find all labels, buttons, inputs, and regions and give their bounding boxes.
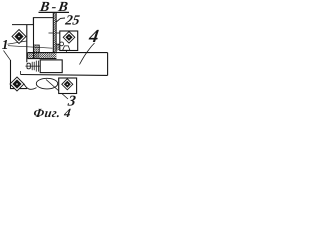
- flexible link tail: [24, 84, 37, 89]
- leader 1c: [4, 51, 11, 61]
- trapezoid tab with pin: [63, 46, 70, 53]
- section title B-B: [38, 0, 71, 15]
- svg-text:1: 1: [2, 37, 9, 52]
- leader 1b: [8, 46, 53, 49]
- clamp block under bolt: [40, 60, 62, 73]
- leader to 4: [80, 43, 95, 65]
- upper-right clamp box: [60, 31, 78, 51]
- long top edge of bar (merges with bracket top): [28, 52, 108, 54]
- bolt washer/plate lines: [31, 62, 33, 70]
- left vertical plate edge: [26, 25, 28, 63]
- flexible link loop (oval): [36, 78, 57, 89]
- diamond in upper-right box: [63, 32, 75, 44]
- leader 1a: [8, 41, 27, 44]
- hatched L-bracket: vertical band: [34, 45, 40, 59]
- leader to 3 through flexible link: [46, 80, 68, 100]
- leader to 25: [56, 18, 65, 22]
- lower-left bracket edges: [11, 60, 28, 89]
- plate-to-box connector dashes: [49, 32, 60, 34]
- upper plate (edge view, hatched): [53, 13, 56, 53]
- base line: [21, 74, 108, 77]
- bolt 25 head: [27, 63, 30, 69]
- small hatched bracket step: [56, 44, 60, 50]
- bar 4 (right), right edge and bottom: [107, 53, 109, 76]
- diamond in lower-right box: [62, 79, 73, 90]
- upper-left prism marker (diamond): [12, 30, 26, 44]
- fork left edge: [33, 18, 35, 59]
- svg-text:25: 25: [63, 13, 80, 29]
- base tick: [20, 71, 22, 75]
- svg-text:Фиг. 4: Фиг. 4: [33, 106, 72, 120]
- top bracket step edge: [12, 18, 53, 25]
- bolt axis: [25, 65, 41, 67]
- lower-right clamp box: [59, 78, 77, 94]
- small circle in box: [60, 42, 64, 46]
- lower-left prism marker (diamond): [10, 77, 24, 91]
- hatched L-bracket: horizontal band: [28, 53, 57, 59]
